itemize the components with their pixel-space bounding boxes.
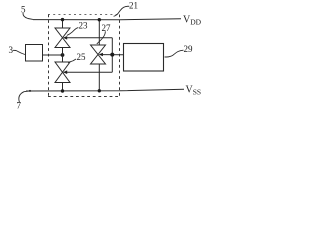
protection device 27 (bidirectional diode hourglass)	[91, 45, 106, 64]
svg-text:VSS: VSS	[186, 85, 202, 97]
svg-text:3: 3	[9, 45, 14, 55]
pad box 3	[26, 45, 43, 62]
leader line for label 25	[68, 59, 76, 63]
gate arrowhead of 25	[63, 70, 67, 74]
svg-text:21: 21	[129, 1, 138, 11]
svg-text:23: 23	[79, 21, 89, 31]
svg-text:5: 5	[21, 5, 26, 15]
wire 27 to VSS	[98, 64, 100, 91]
wire 27 center to internal circuit 29	[103, 54, 124, 56]
wire 25 center to gate bus	[67, 71, 113, 73]
leader line for label 7	[19, 91, 30, 103]
leader line for label 29	[165, 50, 184, 57]
wire 25 to VSS	[62, 83, 64, 92]
wire 23 center to gate bus	[67, 37, 113, 39]
leader line for label 23	[67, 28, 79, 36]
svg-text:29: 29	[184, 44, 194, 54]
junction dot gate bus / wire to 29	[110, 53, 114, 57]
svg-text:VDD: VDD	[183, 15, 202, 27]
wire VDD to device 27	[98, 20, 100, 45]
wire 23 to node A to 25	[62, 48, 64, 63]
svg-text:7: 7	[17, 101, 22, 111]
leader line for label 21	[114, 6, 130, 16]
gate bus vertical wire	[111, 38, 113, 72]
gate arrowhead of 27	[99, 53, 103, 57]
leader line for label 3	[13, 50, 25, 54]
node A junction dot	[61, 53, 65, 57]
internal circuit box 29	[124, 44, 164, 72]
leader line for label 5	[23, 13, 33, 19]
wire pad 3 to node A	[43, 54, 63, 56]
protection circuit boundary box 21 (dashed)	[48, 15, 120, 97]
protection device 25 (bidirectional diode hourglass)	[55, 62, 70, 83]
protection device 23 (bidirectional diode hourglass)	[55, 28, 70, 48]
svg-text:25: 25	[77, 52, 87, 62]
wire VSS rail (net 7)	[26, 89, 184, 91]
junction dot VSS/25	[61, 89, 64, 92]
junction tick where leader 7 meets VSS	[29, 90, 31, 92]
junction dot VDD/23	[61, 18, 64, 21]
wire VDD rail (net 5)	[33, 18, 181, 21]
leader line for label 27	[97, 31, 106, 44]
gate arrowhead of 23	[63, 36, 67, 40]
svg-text:27: 27	[102, 23, 112, 33]
junction dot VDD/27	[98, 18, 101, 21]
junction dot VSS/27	[98, 89, 101, 92]
wire VDD to device 23	[62, 20, 64, 28]
